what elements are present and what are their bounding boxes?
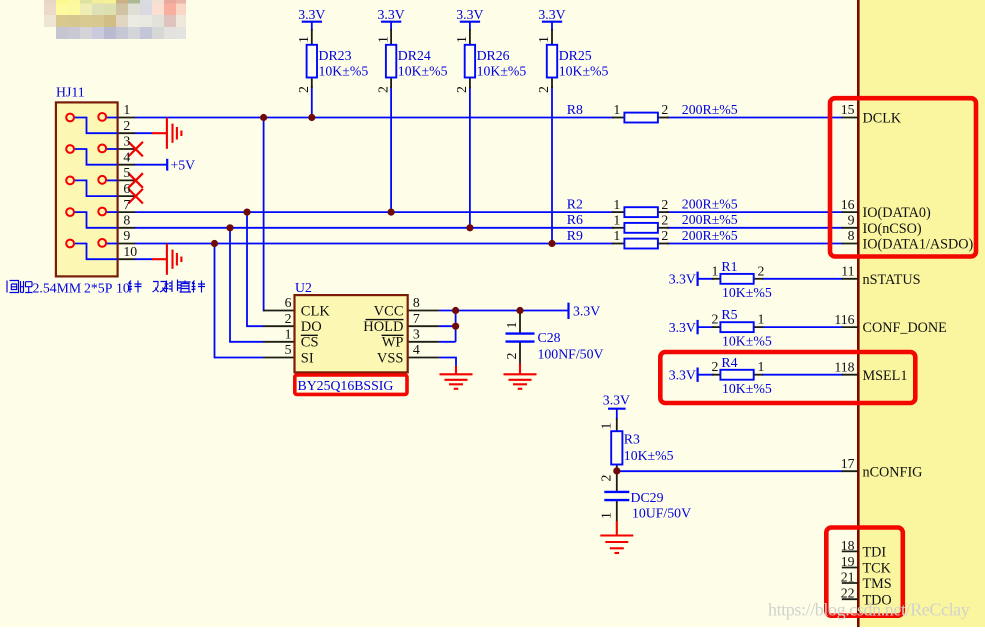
U2 pin 8 stub (VCC) bbox=[408, 310, 439, 312]
wire DR25 top to 3.3V bar bbox=[551, 22, 553, 31]
svg-text:1: 1 bbox=[123, 102, 130, 117]
svg-text:10UF/50V: 10UF/50V bbox=[632, 505, 691, 520]
svg-text:CONF_DONE: CONF_DONE bbox=[863, 320, 947, 336]
svg-text:10K±%5: 10K±%5 bbox=[624, 448, 674, 463]
DR24 leads bbox=[390, 29, 392, 45]
svg-text:HJ11: HJ11 bbox=[56, 85, 85, 100]
hanzi 距 bbox=[21, 281, 33, 293]
svg-text:200R±%5: 200R±%5 bbox=[682, 102, 738, 117]
svg-text:1: 1 bbox=[375, 36, 390, 43]
wire R2 to FPGA pin16 bbox=[667, 211, 843, 213]
resistor R1 body bbox=[720, 274, 753, 284]
wire net nCONFIG (R3 bottom to FPGA pin17) bbox=[617, 470, 843, 472]
svg-text:1: 1 bbox=[536, 36, 551, 43]
wire DR24 top to 3.3V bar bbox=[390, 22, 392, 31]
FPGA pin numbers bbox=[834, 102, 854, 600]
resistor R9 body bbox=[624, 239, 658, 249]
resistor DR23 body bbox=[307, 45, 317, 78]
svg-text:MSEL1: MSEL1 bbox=[863, 368, 908, 384]
U2 pin 5 stub (SI) bbox=[263, 357, 294, 359]
svg-text:17: 17 bbox=[841, 456, 855, 471]
svg-text:1: 1 bbox=[613, 102, 620, 117]
node nCONFIG/R3/DC29 bbox=[613, 467, 620, 474]
active-low overlines for CS HOLD WP bbox=[301, 320, 404, 336]
3.3V power bar at U2 VCC net bbox=[567, 303, 569, 319]
+5V power bar at HJ11 pin4 bbox=[166, 159, 168, 171]
R5 leads bbox=[712, 326, 721, 328]
svg-text:TMS: TMS bbox=[863, 576, 892, 592]
hanzi 直 bbox=[180, 281, 192, 293]
wire DR25 to net IO(DATA1/ASDO) bbox=[551, 86, 553, 244]
svg-text:1: 1 bbox=[758, 312, 765, 327]
svg-text:4: 4 bbox=[123, 149, 130, 164]
svg-text:IO(nCSO): IO(nCSO) bbox=[863, 221, 922, 237]
svg-text:2: 2 bbox=[454, 86, 469, 93]
svg-text:R3: R3 bbox=[624, 431, 640, 446]
svg-text:U2: U2 bbox=[295, 280, 312, 295]
svg-text:1: 1 bbox=[285, 327, 292, 342]
wire 3.3V bar to R4 bbox=[698, 374, 714, 376]
C28 top lead bbox=[519, 311, 521, 334]
HJ11 pin 6 stub bbox=[118, 195, 135, 197]
capacitor C28 plates bbox=[506, 334, 535, 342]
svg-text:DR25: DR25 bbox=[559, 48, 592, 63]
HIGHLIGHT BOXES bbox=[295, 98, 976, 616]
wire R5 to FPGA pin116 bbox=[762, 326, 843, 328]
U2 pin numbers bbox=[285, 295, 420, 357]
svg-text:1: 1 bbox=[613, 228, 620, 243]
svg-text:TCK: TCK bbox=[863, 561, 892, 577]
wire R4 to FPGA pin118 bbox=[762, 374, 843, 376]
wire R6 to FPGA pin9 bbox=[667, 227, 843, 229]
svg-text:nCONFIG: nCONFIG bbox=[863, 464, 923, 480]
svg-text:2*5P: 2*5P bbox=[84, 280, 113, 295]
U2 pin 2 stub (DO) bbox=[263, 325, 294, 327]
HJ11 pin 7 stub bbox=[118, 211, 135, 213]
svg-text:WP: WP bbox=[382, 335, 404, 351]
svg-text:3.3V: 3.3V bbox=[573, 304, 600, 319]
svg-text:BY25Q16BSSIG: BY25Q16BSSIG bbox=[298, 378, 394, 393]
DC29 top lead bbox=[616, 471, 618, 492]
svg-text:200R±%5: 200R±%5 bbox=[682, 196, 738, 211]
HJ11 pin 10 stub bbox=[118, 258, 135, 260]
HJ11 pin 9 stub bbox=[118, 243, 135, 245]
R4 leads bbox=[712, 374, 721, 376]
hanzi 针 (2) bbox=[192, 281, 206, 293]
resistor R8 body bbox=[624, 113, 658, 123]
chip U2 body bbox=[295, 295, 408, 372]
no-connect X at HJ11 pin6 bbox=[128, 189, 143, 204]
resistor DR26 body bbox=[465, 45, 475, 78]
designator R8 and value bbox=[613, 102, 668, 117]
svg-text:DR26: DR26 bbox=[477, 48, 510, 63]
HJ11 pin 8 stub bbox=[118, 227, 135, 229]
U2 pin 7 stub (HOLD) bbox=[408, 325, 439, 327]
svg-text:IO(DATA0): IO(DATA0) bbox=[863, 205, 931, 221]
svg-text:2: 2 bbox=[661, 102, 668, 117]
svg-text:2: 2 bbox=[661, 228, 668, 243]
DR25 leads bbox=[551, 29, 553, 45]
svg-text:10K±%5: 10K±%5 bbox=[398, 64, 448, 79]
svg-text:8: 8 bbox=[848, 228, 855, 243]
wire net IO(DATA0) horizontal (HJ11 pin7 to R2) bbox=[135, 211, 615, 213]
svg-text:10K±%5: 10K±%5 bbox=[722, 333, 772, 348]
svg-text:1: 1 bbox=[296, 36, 311, 43]
ground under C28 bbox=[504, 364, 537, 389]
svg-text:1: 1 bbox=[758, 359, 765, 374]
svg-text:10K±%5: 10K±%5 bbox=[319, 64, 369, 79]
highlight box around JTAG pins bbox=[826, 528, 903, 616]
C28 bottom lead bbox=[519, 342, 521, 365]
R8 leads bbox=[612, 117, 625, 119]
FPGA pin 21 stub (TMS) bbox=[842, 582, 859, 584]
FPGA pin 18 stub (TDI) bbox=[842, 550, 859, 552]
svg-text:3.3V: 3.3V bbox=[298, 7, 325, 22]
svg-text:R1: R1 bbox=[721, 259, 737, 274]
svg-text:1: 1 bbox=[599, 512, 614, 519]
svg-text:16: 16 bbox=[841, 197, 855, 212]
svg-text:R8: R8 bbox=[567, 102, 583, 117]
svg-text:VSS: VSS bbox=[377, 350, 404, 366]
svg-text:DR24: DR24 bbox=[398, 48, 431, 63]
HJ11 pin 1 stub bbox=[118, 117, 135, 119]
resistor R5 body bbox=[720, 322, 753, 332]
wire DR26 to net IO(nCSO) bbox=[469, 86, 471, 228]
svg-text:https://blog.csdn.net/ReCclay: https://blog.csdn.net/ReCclay bbox=[768, 600, 970, 620]
resistor DR25 body bbox=[547, 45, 557, 78]
svg-text:2: 2 bbox=[504, 353, 519, 360]
resistor R6 body bbox=[624, 223, 658, 233]
wire R8 to FPGA pin15 bbox=[667, 117, 843, 119]
svg-text:8: 8 bbox=[123, 213, 130, 228]
svg-text:SI: SI bbox=[301, 350, 314, 366]
3.3V power bar at R5 bbox=[696, 320, 698, 334]
3.3V power bar above DR26 bbox=[460, 21, 480, 23]
svg-text:1: 1 bbox=[613, 197, 620, 212]
FPGA pin names bbox=[863, 111, 974, 609]
svg-text:7: 7 bbox=[413, 311, 420, 326]
PINS (black stubs) bbox=[118, 29, 859, 599]
FPGA chip body (right yellow band) bbox=[858, 0, 985, 627]
svg-text:8: 8 bbox=[413, 295, 420, 310]
svg-text:200R±%5: 200R±%5 bbox=[682, 212, 738, 227]
FPGA pin 116 stub bbox=[842, 326, 859, 328]
ground under U2 VSS bbox=[440, 366, 473, 389]
node VCC/HOLD joint bbox=[452, 307, 459, 314]
wire vertical IO(DATA0) to U2 DO bbox=[247, 212, 264, 326]
HJ11 pin numbers 1-10 bbox=[123, 102, 137, 259]
R3 leads bbox=[616, 418, 618, 432]
designator R9 and value bbox=[613, 228, 668, 243]
ground at HJ11 pin2 bbox=[152, 118, 181, 149]
svg-text:15: 15 bbox=[841, 102, 855, 117]
svg-text:2: 2 bbox=[758, 263, 765, 278]
wire U2 VSS to ground bbox=[439, 358, 456, 368]
svg-text:3.3V: 3.3V bbox=[603, 393, 630, 408]
svg-text:10K±%5: 10K±%5 bbox=[722, 381, 772, 396]
wire net IO(nCSO) horizontal (HJ11 pin8 to R6) bbox=[135, 227, 615, 229]
DR23 leads bbox=[311, 29, 313, 45]
svg-text:5: 5 bbox=[123, 165, 130, 180]
wire 3.3V bar to R1 bbox=[698, 278, 714, 280]
svg-text:3.3V: 3.3V bbox=[538, 7, 565, 22]
svg-text:nSTATUS: nSTATUS bbox=[863, 272, 921, 288]
U2 pin 6 stub (CLK) bbox=[263, 310, 294, 312]
resistor R2 body bbox=[624, 207, 658, 217]
C28 pin numbers rotated bbox=[504, 322, 519, 360]
DR23 pin numbers and labels bbox=[296, 36, 551, 93]
highlight box around BY25Q16BSSIG bbox=[295, 375, 407, 394]
wire vertical IO(DATA1/ASDO) to U2 SI bbox=[215, 244, 264, 358]
svg-text:10K±%5: 10K±%5 bbox=[559, 64, 609, 79]
capacitor DC29 plates bbox=[604, 492, 629, 500]
wire R9 to FPGA pin8 bbox=[667, 243, 843, 245]
node DATA0/DR24 bbox=[388, 209, 395, 216]
highlight box around MSEL1 row bbox=[660, 352, 915, 403]
FPGA pin 9 stub bbox=[842, 227, 859, 229]
svg-text:TDI: TDI bbox=[863, 545, 887, 561]
wire HJ11 pin2 to ground bbox=[135, 132, 153, 134]
svg-text:2: 2 bbox=[712, 312, 719, 327]
hanzi 针 bbox=[128, 281, 142, 293]
svg-text:10K±%5: 10K±%5 bbox=[477, 64, 527, 79]
node DCLK/CLK tap bbox=[260, 114, 267, 121]
connector HJ11 body bbox=[56, 102, 118, 276]
wire DR24 to net IO(DATA0) bbox=[390, 86, 392, 212]
FPGA chip left border line bbox=[857, 0, 860, 627]
hanzi 双 bbox=[153, 282, 167, 293]
ground under DC29 bbox=[600, 521, 633, 553]
svg-text:5: 5 bbox=[285, 342, 292, 357]
svg-text:1: 1 bbox=[613, 213, 620, 228]
svg-text:2: 2 bbox=[285, 311, 292, 326]
svg-text:7: 7 bbox=[123, 197, 130, 212]
svg-text:1: 1 bbox=[712, 263, 719, 278]
svg-text:10: 10 bbox=[116, 280, 130, 295]
svg-text:2: 2 bbox=[661, 197, 668, 212]
svg-text:3.3V: 3.3V bbox=[456, 7, 483, 22]
svg-text:200R±%5: 200R±%5 bbox=[682, 228, 738, 243]
wire U2 VCC to 3.3V bbox=[439, 310, 569, 312]
FPGA pin 8 stub bbox=[842, 243, 859, 245]
svg-text:3.3V: 3.3V bbox=[669, 368, 696, 383]
svg-text:2: 2 bbox=[599, 475, 614, 482]
designator R6 and value bbox=[613, 213, 668, 228]
wire vertical IO(nCSO) to U2 CS bbox=[230, 228, 264, 342]
svg-text:R9: R9 bbox=[567, 228, 583, 243]
blurred logo (censored mosaic) bbox=[44, 0, 186, 39]
svg-text:9: 9 bbox=[123, 228, 130, 243]
resistor DR24 body bbox=[386, 45, 396, 78]
node DATA1/DR25 bbox=[548, 240, 555, 247]
svg-text:6: 6 bbox=[285, 295, 292, 310]
DC29 bottom lead bbox=[616, 500, 618, 522]
svg-text:100NF/50V: 100NF/50V bbox=[538, 347, 604, 362]
resistor R4 body bbox=[720, 370, 753, 380]
svg-text:6: 6 bbox=[123, 181, 130, 196]
svg-text:1: 1 bbox=[504, 322, 519, 329]
node DCLK/DR23 bbox=[308, 114, 315, 121]
R9 leads bbox=[612, 243, 625, 245]
node nCSO/DR26 bbox=[466, 224, 473, 231]
svg-text:10: 10 bbox=[123, 244, 137, 259]
node nCSO/CS tap bbox=[226, 224, 233, 231]
3.3V power bar above DR23 bbox=[302, 21, 322, 23]
wire vertical joining VCC HOLD WP bbox=[455, 311, 457, 342]
svg-text:116: 116 bbox=[834, 312, 854, 327]
wire HJ11 pin4 to +5V bbox=[135, 164, 168, 166]
svg-text:19: 19 bbox=[841, 554, 855, 569]
svg-text:18: 18 bbox=[841, 538, 855, 553]
FPGA pin 16 stub bbox=[842, 211, 859, 213]
svg-text:3: 3 bbox=[123, 134, 130, 149]
svg-text:IO(DATA1/ASDO): IO(DATA1/ASDO) bbox=[863, 237, 974, 253]
no-connect X at HJ11 pin5 bbox=[128, 173, 143, 188]
svg-text:2: 2 bbox=[123, 118, 130, 133]
U2 pin 1 stub (CS) bbox=[263, 341, 294, 343]
node DATA0/DO tap bbox=[243, 209, 250, 216]
FPGA pin 15 stub bbox=[842, 117, 859, 119]
wire net DCLK horizontal (HJ11 pin1 to R8) bbox=[135, 117, 615, 119]
HJ11 pin 3 stub bbox=[118, 148, 135, 150]
wire R1 to FPGA pin11 bbox=[762, 278, 843, 280]
svg-text:3.3V: 3.3V bbox=[669, 320, 696, 335]
highlight box around DCLK/IO pins bbox=[830, 98, 976, 256]
3.3V power bar above DR24 bbox=[381, 21, 401, 23]
wire U2 HOLD to vertical bbox=[439, 325, 456, 327]
wire net IO(DATA1/ASDO) horizontal (HJ11 pin9 to R9) bbox=[135, 243, 615, 245]
FPGA pin 11 stub bbox=[842, 278, 859, 280]
wire DR23 top to 3.3V bar bbox=[311, 22, 313, 31]
FPGA pin 19 stub (TCK) bbox=[842, 567, 859, 569]
wire DR26 top to 3.3V bar bbox=[469, 22, 471, 31]
HJ11 pin 5 stub bbox=[118, 179, 135, 181]
svg-text:C28: C28 bbox=[538, 330, 561, 345]
svg-text:22: 22 bbox=[841, 586, 855, 601]
FPGA pin 17 stub bbox=[842, 470, 859, 472]
R1 leads bbox=[712, 278, 721, 280]
svg-text:DCLK: DCLK bbox=[863, 111, 902, 127]
designator R2 and value bbox=[613, 197, 668, 212]
svg-text:2: 2 bbox=[661, 213, 668, 228]
HJ11 pin 4 stub bbox=[118, 164, 135, 166]
svg-text:HOLD: HOLD bbox=[363, 319, 403, 335]
svg-text:2: 2 bbox=[536, 86, 551, 93]
wire U2 WP to vertical bbox=[439, 341, 456, 343]
svg-text:R5: R5 bbox=[721, 307, 737, 322]
svg-text:DC29: DC29 bbox=[631, 490, 664, 505]
svg-text:4: 4 bbox=[413, 342, 420, 357]
wire 3.3V bar to R3 top bbox=[616, 409, 618, 420]
svg-text:2: 2 bbox=[296, 86, 311, 93]
svg-text:3.3V: 3.3V bbox=[377, 7, 404, 22]
svg-text:R6: R6 bbox=[567, 212, 583, 227]
svg-text:21: 21 bbox=[841, 569, 855, 584]
wire vertical DCLK to U2 CLK bbox=[264, 118, 265, 311]
node VCC/C28 bbox=[516, 307, 523, 314]
svg-text:10K±%5: 10K±%5 bbox=[722, 285, 772, 300]
svg-text:R4: R4 bbox=[721, 355, 737, 370]
FPGA pin 22 stub (TDO) bbox=[842, 598, 859, 600]
svg-text:1: 1 bbox=[454, 36, 469, 43]
svg-text:CS: CS bbox=[301, 335, 319, 351]
3.3V power bar above DR25 bbox=[542, 21, 562, 23]
U2 pin names bbox=[301, 303, 404, 366]
wire DR23 to net DCLK bbox=[311, 86, 313, 118]
hanzi 排 bbox=[165, 280, 181, 293]
DR26 leads bbox=[469, 29, 471, 45]
junction dots bbox=[211, 114, 621, 475]
svg-text:DO: DO bbox=[301, 319, 322, 335]
svg-text:+5V: +5V bbox=[171, 158, 196, 173]
HJ11 pin 2 stub bbox=[118, 132, 135, 134]
svg-text:9: 9 bbox=[848, 213, 855, 228]
no-connect X at HJ11 pin3 bbox=[128, 142, 143, 157]
svg-text:DR23: DR23 bbox=[319, 48, 352, 63]
svg-text:2: 2 bbox=[712, 359, 719, 374]
R6 leads bbox=[612, 227, 625, 229]
svg-text:1: 1 bbox=[599, 423, 614, 430]
wire 3.3V bar to R5 bbox=[698, 326, 714, 328]
svg-text:2: 2 bbox=[375, 86, 390, 93]
ground at HJ11 pin10 bbox=[152, 244, 181, 275]
svg-text:3.3V: 3.3V bbox=[669, 272, 696, 287]
3.3V power bar above R3 bbox=[608, 408, 626, 410]
svg-text:2.54MM: 2.54MM bbox=[33, 280, 82, 295]
HJ11 pad circles bbox=[66, 113, 106, 247]
HJ11 caption: 间距2.54MM 2*5P 10针 双排直针 bbox=[7, 280, 205, 296]
hanzi 间 bbox=[7, 281, 19, 293]
svg-text:11: 11 bbox=[841, 264, 854, 279]
node DATA1/SI tap bbox=[211, 240, 218, 247]
U2 pin 3 stub (WP) bbox=[408, 341, 439, 343]
svg-text:3: 3 bbox=[413, 327, 420, 342]
svg-text:118: 118 bbox=[834, 359, 854, 374]
3.3V power bar at R1 bbox=[696, 272, 698, 286]
svg-text:R2: R2 bbox=[567, 196, 583, 211]
U2 pin 4 stub (VSS) bbox=[408, 357, 439, 359]
R2 leads bbox=[612, 211, 625, 213]
resistor R3 body bbox=[611, 431, 622, 464]
wire HJ11 pin10 to ground bbox=[135, 258, 153, 260]
FPGA pin 118 stub bbox=[842, 374, 859, 376]
HJ11 internal wires bbox=[75, 118, 118, 260]
svg-text:VCC: VCC bbox=[374, 303, 404, 319]
svg-text:CLK: CLK bbox=[301, 303, 331, 319]
3.3V power bar at R4 bbox=[696, 368, 698, 382]
